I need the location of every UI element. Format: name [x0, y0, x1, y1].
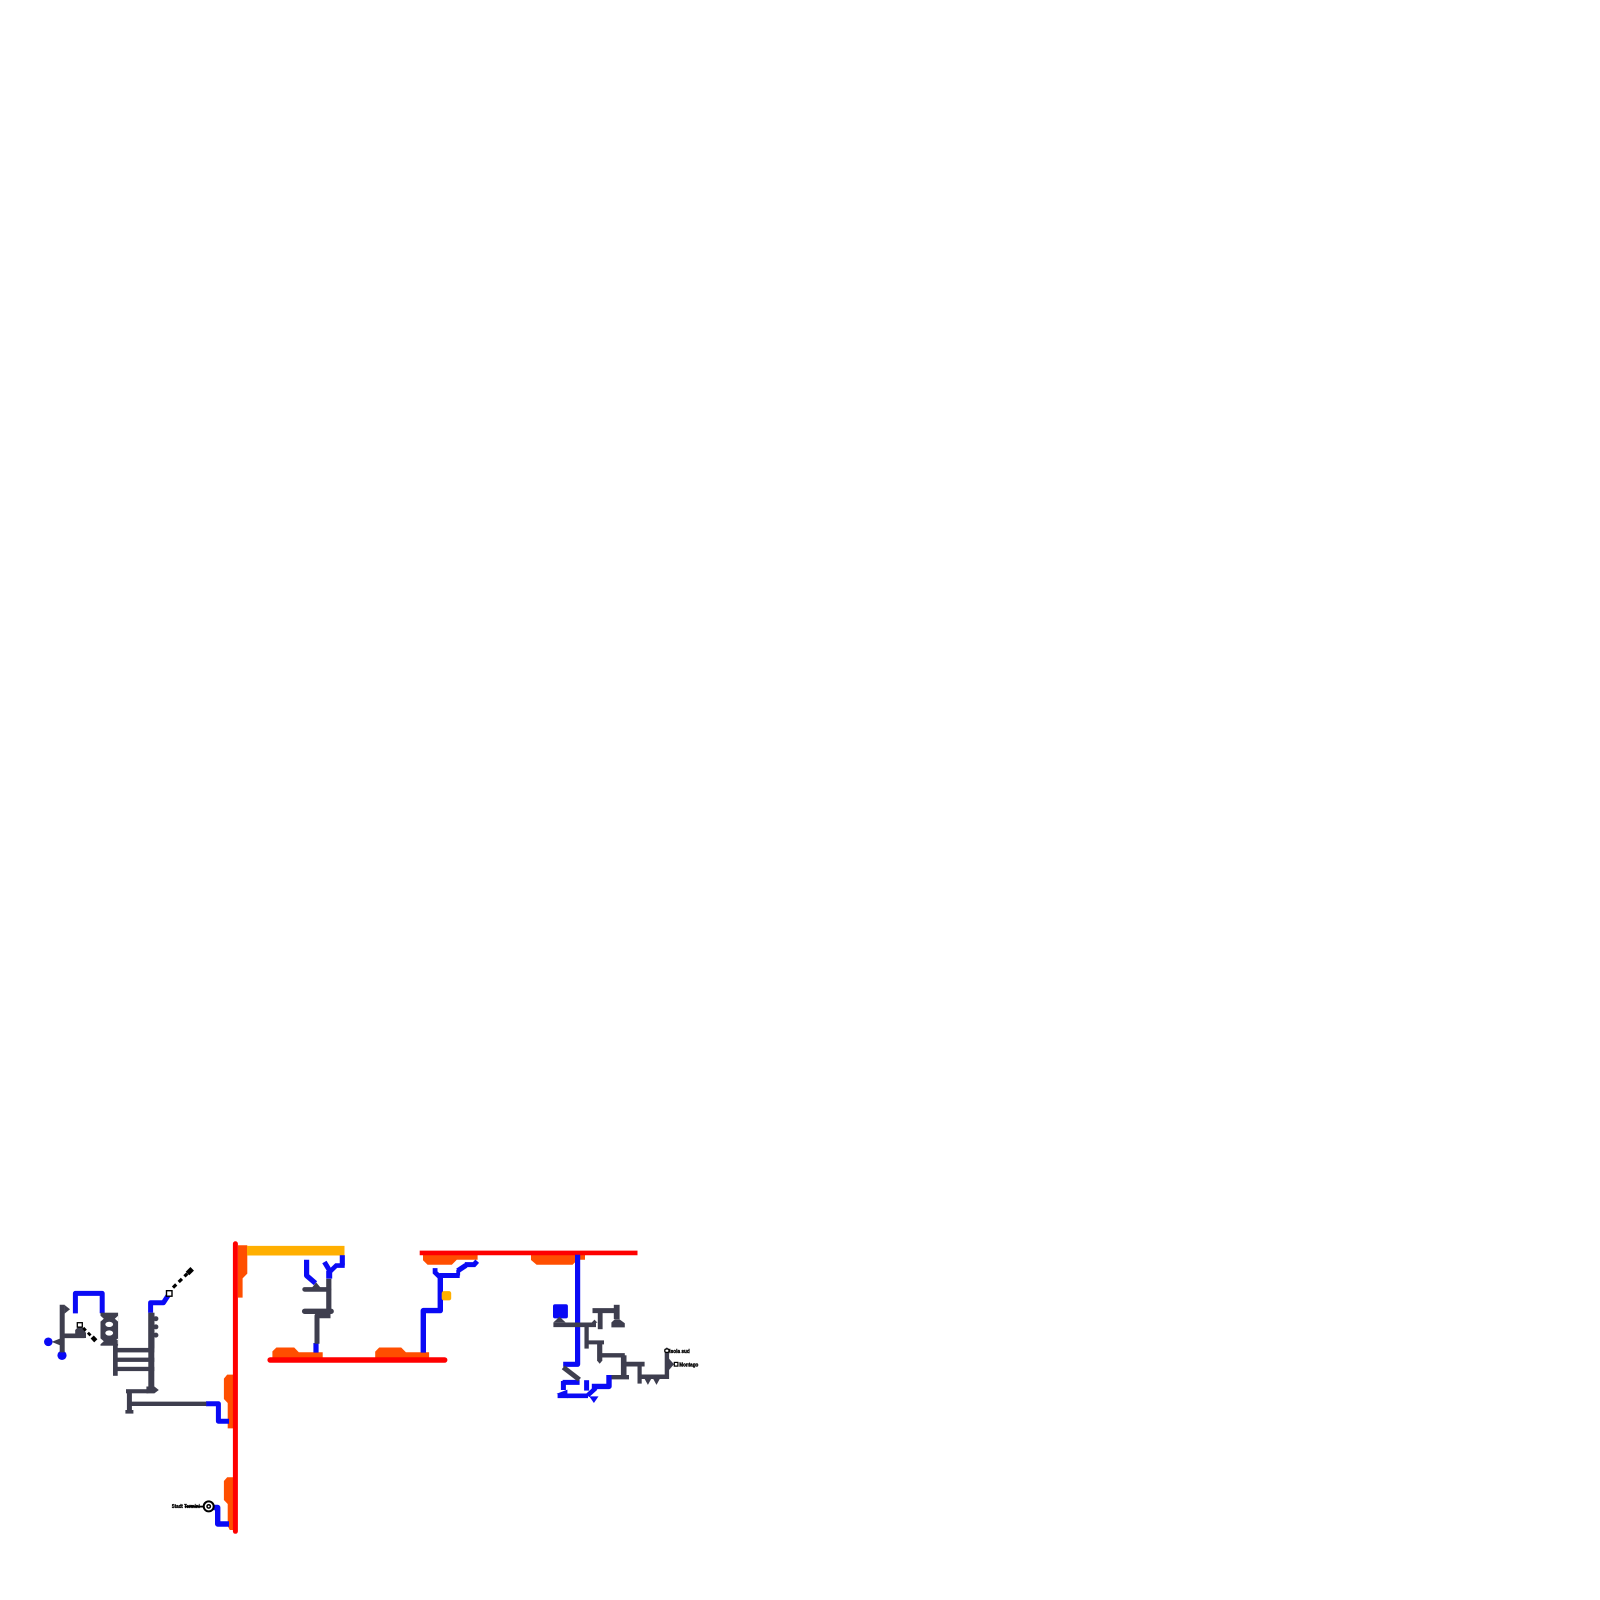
- blue wire B11 hook: [592, 1375, 609, 1386]
- interchange node double circle: [204, 1501, 214, 1511]
- orange segment O4 under top-right red line (left blob): [423, 1255, 478, 1265]
- dark wire D11 central vertical: [326, 1279, 331, 1313]
- blue wire B5 funnel at amber end: [340, 1255, 345, 1265]
- dark wire D18b hook up-down: [614, 1305, 620, 1319]
- blue node big square: [553, 1304, 568, 1318]
- dark wire D17 right-cluster bar1: [553, 1323, 596, 1328]
- dark diagonal D29 in blue zone: [563, 1367, 579, 1379]
- dark triangle D16 under blue square: [553, 1317, 565, 1323]
- blue node dot2: [57, 1351, 66, 1360]
- svg-text:Isola sud: Isola sud: [669, 1349, 690, 1355]
- station S3 marker cap: [665, 1347, 669, 1349]
- orange segment O1 right of red trunk top: [238, 1245, 247, 1297]
- blue arrowhead down: [589, 1396, 598, 1403]
- blue wire B14 Z-link from interchange to orange O3: [214, 1508, 230, 1525]
- red line R2 top-right horizontal: [420, 1251, 638, 1256]
- blue wire B3a bolt bar: [440, 1273, 460, 1278]
- svg-text:Montago: Montago: [679, 1363, 698, 1369]
- blue arrowhead left: [557, 1390, 568, 1399]
- dark column D8 with bumps: [148, 1313, 158, 1349]
- station S3 marker: [665, 1349, 669, 1352]
- dark wire D22 stub2: [600, 1353, 625, 1357]
- blue wire B8 short bar: [563, 1380, 580, 1385]
- dark wire D19 descender2: [584, 1327, 588, 1349]
- dark wire D18a jog bar: [593, 1308, 618, 1313]
- dark wedge D3 to dot1: [52, 1338, 63, 1347]
- dark wedge D28 to square station: [669, 1359, 674, 1370]
- dark wire D23b foot bar: [612, 1375, 630, 1379]
- dark wedge D2: [65, 1305, 70, 1314]
- dark wire D5 bar to station S2: [62, 1334, 84, 1339]
- dark wire D23 vertical3: [621, 1355, 627, 1375]
- blue wire B10c vertical: [584, 1380, 589, 1390]
- blue wire B6 left drop of central cluster: [307, 1260, 316, 1283]
- dark plinth D6 under station S2: [75, 1325, 86, 1338]
- dark tooth D26c: [653, 1379, 660, 1385]
- label interchange leader line: [185, 1506, 204, 1508]
- orange segment O5 under top-right red line (right blob): [531, 1255, 585, 1265]
- blue wire B7 long vertical from top-right red line: [563, 1255, 577, 1365]
- arrow A-1 head: [188, 1269, 193, 1274]
- blue wire B5c funnel left arm: [324, 1262, 329, 1271]
- arrow A-1 dashed from S1: [173, 1274, 187, 1288]
- dark peak on bar1: [592, 1320, 598, 1323]
- blue wire B3 V-arm: [435, 1268, 440, 1277]
- orange segment O6 above middle red line (left blob): [272, 1348, 322, 1358]
- blue wire B2 to station S1: [151, 1295, 169, 1313]
- blue wire B9 short drop: [561, 1381, 566, 1390]
- blue wire B5b funnel shelf diagonal: [329, 1266, 344, 1273]
- dark ladder D9: [113, 1340, 159, 1414]
- dark wire D26 W-bar: [641, 1375, 668, 1380]
- arrow A-2 head: [92, 1337, 96, 1341]
- blue wire B3a2 bolt tab: [456, 1270, 460, 1276]
- dark foot D18c: [611, 1319, 624, 1327]
- dark wire D15 central jog down: [317, 1316, 331, 1344]
- blue wire B13 Z-link to orange O2: [206, 1404, 229, 1421]
- dark wire D27 vertical4 to circle station: [665, 1353, 669, 1379]
- dark wire D21 vertical2: [597, 1343, 602, 1361]
- dark wire D18 descender from jog bar: [598, 1311, 603, 1330]
- red line R3 middle horizontal: [270, 1357, 444, 1363]
- blue wire B3c bolt diagonal: [458, 1265, 466, 1271]
- orange segment O2 left of red trunk middle: [224, 1375, 233, 1429]
- station S2 square: [77, 1323, 82, 1327]
- blue wire B4 stub into orange O6: [313, 1343, 318, 1353]
- dark wire D13 central stub upper: [305, 1287, 329, 1292]
- dark wire D24 bar4: [624, 1362, 645, 1367]
- blue wire B10b diagonal up: [588, 1388, 596, 1395]
- station S4 square: [674, 1362, 678, 1366]
- dark wire D1 left vertical bar: [60, 1305, 65, 1353]
- blue node dot1: [44, 1338, 53, 1347]
- blue wire B3b stem down to orange O7: [423, 1277, 440, 1353]
- dark wire D12 peak diagonal: [311, 1282, 323, 1289]
- blue wire B1 n-loop top-left: [75, 1293, 102, 1313]
- amber node square A2: [442, 1291, 452, 1300]
- dark tooth D26b: [645, 1379, 652, 1385]
- dark tip D21b: [597, 1361, 602, 1364]
- dark column D7 bowtie ladder upper-left: [101, 1313, 119, 1346]
- orange segment O3 left of red trunk bottom: [224, 1477, 233, 1530]
- station S1 square: [167, 1291, 173, 1297]
- dark wire D25 descender3: [637, 1364, 641, 1384]
- dark wire D10 long horizontal bar: [129, 1402, 206, 1406]
- dark wire D20 stub1: [587, 1340, 604, 1344]
- arrow A-2 dashed from S2: [83, 1328, 92, 1338]
- blue wire B10 bottom bar: [558, 1394, 588, 1399]
- blue wire B5d funnel stem: [326, 1271, 332, 1279]
- dark wire D14 central stub lower: [305, 1309, 332, 1314]
- blue wire B3c2 hook into orange: [465, 1261, 477, 1264]
- orange segment O7 above middle red line (right blob): [375, 1348, 429, 1358]
- amber bar A1 top horizontal: [247, 1246, 345, 1256]
- red line R1 main vertical trunk: [233, 1244, 238, 1532]
